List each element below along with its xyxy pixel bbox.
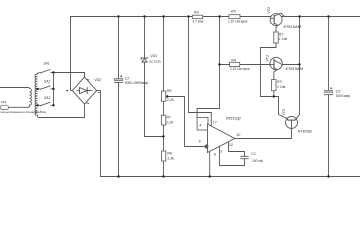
svg-text:С3: С3 bbox=[336, 89, 341, 93]
svg-text:КТ815Б: КТ815Б bbox=[298, 128, 312, 133]
svg-text:3: 3 bbox=[220, 149, 222, 153]
svg-text:SA3: SA3 bbox=[44, 96, 50, 100]
svg-text:R5: R5 bbox=[231, 9, 236, 13]
svg-text:1000 мкф: 1000 мкф bbox=[336, 94, 351, 98]
svg-text:1,15 Ом прок: 1,15 Ом прок bbox=[230, 67, 250, 71]
svg-text:С1: С1 bbox=[251, 152, 256, 156]
svg-text:1 Ом: 1 Ом bbox=[279, 37, 288, 41]
svg-text:R8: R8 bbox=[167, 152, 172, 156]
svg-text:VT2: VT2 bbox=[267, 7, 271, 14]
svg-text:R9: R9 bbox=[194, 11, 199, 15]
svg-text:КТ819АМ: КТ819АМ bbox=[284, 24, 302, 29]
svg-text:VT3: VT3 bbox=[282, 109, 286, 116]
svg-text:SA2: SA2 bbox=[44, 80, 50, 84]
svg-text:4,7 ком: 4,7 ком bbox=[193, 19, 205, 23]
svg-text:ХР1: ХР1 bbox=[0, 100, 7, 104]
svg-text:5000-10000мкф: 5000-10000мкф bbox=[125, 81, 149, 85]
svg-text:5: 5 bbox=[199, 140, 201, 144]
svg-text:SA1: SA1 bbox=[43, 62, 49, 66]
svg-text:1,3k: 1,3k bbox=[167, 157, 174, 161]
svg-text:К553УД2: К553УД2 bbox=[226, 116, 241, 120]
svg-text:1,10 Ом-крок: 1,10 Ом-крок bbox=[228, 20, 248, 24]
svg-text:С2: С2 bbox=[125, 77, 130, 81]
svg-text:R6: R6 bbox=[167, 89, 172, 93]
svg-text:12: 12 bbox=[229, 143, 233, 147]
svg-text:VT1: VT1 bbox=[266, 55, 270, 62]
svg-text:4: 4 bbox=[199, 123, 201, 127]
svg-text:1 Ом: 1 Ом bbox=[277, 85, 286, 89]
svg-text:2,2k: 2,2k bbox=[166, 98, 174, 102]
svg-text:2,2k: 2,2k bbox=[165, 121, 173, 125]
svg-text:R3: R3 bbox=[277, 80, 282, 84]
svg-text:10: 10 bbox=[236, 133, 240, 137]
svg-text:VD2: VD2 bbox=[94, 78, 101, 82]
svg-text:сетьпеременноготока220в50гц: сетьпеременноготока220в50гц bbox=[0, 110, 46, 114]
svg-text:КС133А: КС133А bbox=[149, 60, 160, 64]
svg-text:R4: R4 bbox=[231, 58, 236, 62]
svg-text:VD1: VD1 bbox=[150, 54, 157, 58]
svg-text:6: 6 bbox=[214, 153, 216, 157]
svg-text:100 пф: 100 пф bbox=[252, 159, 263, 163]
svg-text:КТ819АМ: КТ819АМ bbox=[286, 66, 304, 71]
